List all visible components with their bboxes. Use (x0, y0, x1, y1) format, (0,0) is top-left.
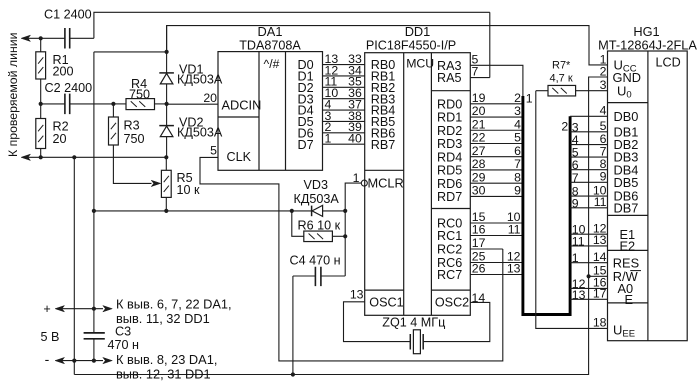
wire arrow to C1 (28, 37, 65, 39)
wire RD0 to bus (470, 103, 523, 105)
wire minus vertical (73, 157, 75, 374)
svg-text:RC7: RC7 (437, 268, 462, 282)
svg-text:11: 11 (572, 234, 585, 248)
svg-text:13: 13 (507, 262, 521, 276)
svg-text:18: 18 (593, 316, 607, 330)
op-amp/ADC DA1 TDA8708A outline (218, 52, 323, 171)
svg-text:7: 7 (472, 65, 479, 79)
svg-text:К выв. 8, 23 DA1,: К выв. 8, 23 DA1, (116, 352, 217, 367)
DA1 ADCIN/CLK divider (218, 116, 259, 118)
junction minus branch (72, 155, 76, 159)
junction R5 bottom (164, 209, 168, 213)
svg-text:КД503А: КД503А (177, 125, 223, 139)
wire bus to DB3 (570, 156, 607, 158)
capacitor C2 (65, 94, 70, 115)
svg-text:E: E (625, 292, 634, 307)
resistor R4 (126, 99, 155, 110)
svg-text:22: 22 (472, 131, 486, 145)
wire to VD3 cathode (292, 210, 312, 212)
MCLR inversion bubble (361, 180, 367, 186)
wire to C2 (41, 103, 65, 105)
wire RA3 to bus (470, 65, 523, 97)
svg-text:OSC2: OSC2 (435, 296, 469, 310)
wire D3 to RB3 (323, 98, 365, 100)
svg-text:5: 5 (210, 144, 217, 158)
wire C3 bottom lead (93, 339, 95, 361)
svg-text:RD3: RD3 (437, 137, 462, 151)
wire RC1 to bus (470, 235, 523, 237)
MCU DD1 PIC18F4550 outline (365, 53, 471, 316)
resistor R3 (109, 117, 119, 145)
svg-text:R3: R3 (124, 119, 140, 133)
svg-text:8: 8 (514, 170, 521, 184)
wire RA5 riser (489, 12, 491, 77)
svg-text:20: 20 (472, 104, 486, 118)
wire D2 to RB2 (323, 86, 365, 88)
wire RD6 to bus (470, 182, 523, 184)
svg-text:4: 4 (600, 104, 607, 118)
svg-text:13: 13 (572, 288, 586, 302)
wire bus to RES (570, 262, 607, 264)
svg-text:MT-12864J-2FLA: MT-12864J-2FLA (598, 38, 697, 53)
HG1 divider (647, 51, 649, 341)
svg-text:28: 28 (472, 157, 486, 171)
svg-text:7: 7 (514, 157, 521, 171)
junction C4 ground (291, 372, 295, 376)
wire to R1 (40, 38, 42, 52)
diode VD2 (159, 126, 174, 137)
svg-text:RD0: RD0 (437, 97, 462, 111)
junction R1 top (39, 36, 43, 40)
svg-text:19: 19 (472, 91, 486, 105)
wire D7 to RB7 (323, 143, 365, 145)
svg-text:CLK: CLK (227, 150, 252, 164)
svg-text:К выв. 6, 7, 22 DA1,: К выв. 6, 7, 22 DA1, (116, 296, 232, 311)
wire RA5 (470, 77, 490, 79)
capacitor C4 (315, 267, 321, 286)
svg-text:20: 20 (53, 132, 67, 146)
HG1 divider below DB7 (608, 214, 648, 216)
arrow to tested line (upper) (21, 35, 31, 41)
svg-text:КД503А: КД503А (294, 192, 340, 206)
HG1 divider below U0 (608, 102, 648, 104)
arrow +5V left (55, 306, 65, 312)
junction R3/R4 node (111, 102, 115, 106)
wire OSC2 to ZQ1 (423, 302, 490, 341)
junction MCLR node (343, 209, 347, 213)
resistor R7 (548, 85, 576, 96)
svg-text:13: 13 (593, 233, 607, 247)
svg-text:13: 13 (350, 288, 364, 302)
wire RD2 to bus (470, 129, 523, 131)
LCD module HG1 outline (608, 51, 688, 341)
wire RD5 to bus (470, 169, 523, 171)
svg-text:RD1: RD1 (437, 111, 462, 125)
svg-text:11: 11 (594, 195, 607, 209)
wire bus to DB2 (570, 144, 607, 146)
svg-text:29: 29 (472, 170, 486, 184)
wire +5V to VD1 top node (94, 51, 167, 53)
group bus (thick harness line) (523, 96, 570, 315)
wire RD4 to bus (470, 156, 523, 158)
trimmer R5 (161, 170, 171, 197)
svg-text:20: 20 (203, 91, 217, 105)
wire R3 to R5 wiper (113, 145, 151, 183)
R5 wiper arrow (151, 180, 161, 186)
svg-text:14: 14 (593, 250, 607, 264)
HG1 divider below E (608, 302, 648, 304)
junction +5V rail tap (92, 307, 96, 311)
wire VD1 anode to node (166, 84, 168, 104)
svg-text:DA1: DA1 (258, 24, 283, 39)
svg-text:750: 750 (124, 132, 145, 146)
svg-text:DD1: DD1 (405, 24, 431, 39)
svg-text:9: 9 (572, 196, 579, 210)
svg-text:PIC18F4550-I/P: PIC18F4550-I/P (366, 39, 456, 53)
resistor R6 (304, 231, 333, 242)
svg-text:40: 40 (348, 132, 362, 146)
capacitor C1 (65, 28, 70, 49)
svg-text:4: 4 (514, 117, 521, 131)
wire R7 left (536, 90, 548, 92)
wire bus to DB0 (570, 115, 607, 117)
svg-text:470 н: 470 н (108, 338, 140, 352)
svg-text:КД503А: КД503А (177, 73, 223, 87)
wire to R3 (112, 104, 114, 117)
wire D0 to RB0 (323, 64, 365, 66)
svg-text:2: 2 (514, 91, 521, 105)
wire node to VD2 cathode (166, 104, 168, 126)
svg-text:C2 2400: C2 2400 (45, 81, 93, 95)
junction VD3 anode node (290, 209, 294, 213)
svg-text:RC1: RC1 (437, 229, 462, 243)
wire R2 to lower arrow rail (40, 149, 42, 158)
svg-text:9: 9 (600, 170, 607, 184)
DD1 left divider below RB7 (365, 169, 404, 171)
junction R6 right (343, 234, 347, 238)
junction ADC input node (165, 102, 169, 106)
svg-text:9: 9 (514, 184, 521, 198)
wire node to MCLR pin (345, 183, 361, 211)
junction C2 node (39, 102, 43, 106)
wire R7 to U0 pin 3 (576, 90, 608, 92)
DD1 divider right (430, 53, 432, 316)
wire VD3 anode to MCLR node (323, 210, 346, 212)
wire GND rail (74, 77, 607, 375)
svg-text:D7: D7 (298, 138, 314, 152)
DA1 divider 2 (285, 52, 287, 171)
svg-text:7: 7 (572, 171, 579, 185)
svg-text:DB7: DB7 (614, 200, 639, 215)
svg-text:3: 3 (514, 104, 521, 118)
junction R5 top (164, 155, 168, 159)
wire to R4 (113, 103, 126, 105)
svg-text:OSC1: OSC1 (369, 296, 403, 310)
wire RC0 to bus (470, 222, 523, 224)
capacitor C3 (84, 333, 105, 339)
wire bus to DB4 (570, 169, 607, 171)
arrow -5V right (103, 357, 113, 363)
svg-text:R6 10 к: R6 10 к (298, 219, 341, 233)
junction C3 bottom (92, 359, 96, 363)
wire bus to E1 (570, 233, 607, 235)
resistor R2 (36, 119, 46, 149)
svg-text:TDA8708A: TDA8708A (239, 39, 301, 53)
wire R6 right (332, 235, 345, 237)
wire D4 to RB4 (323, 109, 365, 111)
svg-text:DB0: DB0 (614, 109, 639, 124)
wire +5V rail to HG1 Ucc pin 1 (167, 26, 608, 65)
DD1 right divider above OSC2 (431, 289, 470, 291)
wire lower arrow rail (28, 156, 166, 158)
svg-text:RD4: RD4 (437, 150, 462, 164)
wire bus to DB1 (570, 131, 607, 133)
junction VD1 top (165, 50, 169, 54)
svg-text:E2: E2 (620, 239, 636, 254)
arrow +5V right (103, 306, 113, 312)
wire R4 to VD node (155, 103, 167, 105)
wire C1 to corner (70, 37, 94, 39)
svg-text:30: 30 (472, 184, 486, 198)
svg-text:1: 1 (325, 132, 332, 146)
wire top rail to RA5 column (94, 12, 490, 38)
arrow -5V left (55, 357, 65, 363)
wire R/W pin 15 (589, 275, 608, 277)
svg-text:RD7: RD7 (437, 190, 462, 204)
svg-text:MCU: MCU (406, 57, 434, 71)
svg-text:1: 1 (572, 251, 579, 265)
wire C4 left (293, 275, 315, 277)
wire bus to E (570, 298, 607, 300)
DA1 divider 1 (258, 52, 260, 171)
wire CLK to RC2 (200, 157, 503, 361)
svg-text:LCD: LCD (656, 56, 681, 70)
wire to R6 left (292, 211, 304, 236)
svg-text:17: 17 (472, 236, 486, 250)
svg-text:5: 5 (514, 131, 521, 145)
svg-text:200: 200 (53, 65, 74, 79)
wire bus to DB7 (570, 207, 607, 209)
wire RD1 to bus (470, 116, 523, 118)
diode VD1 (159, 73, 174, 84)
svg-text:5 В: 5 В (41, 330, 60, 344)
wire minus row (62, 360, 103, 362)
svg-text:17: 17 (593, 287, 607, 301)
svg-text:C1 2400: C1 2400 (44, 8, 92, 22)
wire OSC1 to ZQ1 (344, 302, 411, 342)
wire +5V to VD3 node (94, 210, 292, 212)
svg-text:RA5: RA5 (437, 71, 462, 85)
wire C4 right (321, 275, 345, 277)
wire MCLR node down to C4 (344, 211, 346, 276)
svg-text:DB5: DB5 (614, 175, 639, 190)
DD1 divider left (403, 53, 405, 316)
svg-text:ZQ1 4 МГц: ZQ1 4 МГц (382, 316, 445, 330)
wire bus to E2 (570, 245, 607, 247)
DD1 right divider below RD7 (431, 208, 470, 210)
svg-text:R7*: R7* (552, 59, 571, 71)
svg-text:+: + (43, 302, 50, 316)
svg-text:VD3: VD3 (304, 178, 329, 192)
wire RD7 to bus (470, 195, 523, 197)
wire RC2 to CLK riser (470, 248, 503, 250)
junction R2 bottom (39, 155, 43, 159)
junction +5V tap (92, 209, 96, 213)
wire D5 to RB5 (323, 120, 365, 122)
svg-text:RC2: RC2 (437, 243, 462, 257)
junction minus branch bottom (72, 359, 76, 363)
diode VD3 (312, 205, 323, 216)
svg-text:21: 21 (472, 117, 486, 131)
wire to R5 top (165, 157, 167, 170)
wire C2 to R3 node (70, 103, 113, 105)
DD1 left divider above OSC1 (365, 289, 404, 291)
junction R/W to GND (587, 274, 591, 278)
svg-text:2: 2 (561, 119, 568, 133)
svg-text:RD2: RD2 (437, 124, 462, 138)
wire +5V row (62, 308, 103, 310)
wire R5 bottom (165, 197, 167, 211)
svg-text:ADCIN: ADCIN (222, 98, 262, 113)
svg-text:R/W: R/W (613, 269, 639, 284)
svg-text:MCLR: MCLR (368, 176, 404, 191)
crystal ZQ1 (410, 330, 423, 354)
arrow to tested line (lower) (21, 154, 31, 160)
svg-text:27: 27 (472, 144, 486, 158)
svg-text:C4 470 н: C4 470 н (290, 254, 341, 268)
wire VD2 anode to lower rail (166, 137, 168, 158)
svg-text:RD6: RD6 (437, 177, 462, 191)
wire D6 to RB6 (323, 132, 365, 134)
HG1 divider below E2 (608, 249, 648, 251)
svg-text:10 к: 10 к (177, 183, 201, 197)
wire C4 to ground rail (292, 276, 294, 375)
wire bus to DB6 (570, 195, 607, 197)
svg-text:C3: C3 (115, 324, 131, 338)
svg-text:RB7: RB7 (371, 138, 396, 152)
svg-text:16: 16 (472, 223, 486, 237)
svg-text:выв. 12, 31 DD1: выв. 12, 31 DD1 (116, 367, 211, 382)
wire C3 top lead (93, 309, 95, 333)
wire VD1 cathode lead (166, 26, 168, 73)
svg-text:^/#: ^/# (264, 57, 280, 71)
svg-text:15: 15 (593, 264, 607, 278)
svg-text:11: 11 (508, 223, 521, 237)
svg-text:1: 1 (353, 171, 360, 185)
svg-text:26: 26 (472, 262, 486, 276)
wire RD3 to bus (470, 142, 523, 144)
wire R1 to C2 node (40, 79, 42, 104)
svg-text:1: 1 (526, 92, 533, 106)
wire R7/UEE (536, 91, 608, 329)
svg-text:RD5: RD5 (437, 164, 462, 178)
wire RC7 to bus (470, 274, 523, 276)
wire bus to DB5 (570, 181, 607, 183)
wire +5V vertical (93, 52, 95, 309)
svg-text:К проверяемой линии: К проверяемой линии (6, 32, 20, 157)
svg-text:2: 2 (600, 65, 607, 79)
wire node to ADCIN pin 20 (167, 103, 218, 105)
DD1 right divider below RA5 (431, 90, 470, 92)
svg-text:4,7 к: 4,7 к (550, 73, 573, 85)
svg-text:6: 6 (514, 144, 521, 158)
wire D1 to RB1 (323, 75, 365, 77)
wire bus to A0 (570, 287, 607, 289)
wire to R2 (40, 104, 42, 119)
resistor R1 (36, 52, 46, 79)
svg-text:выв. 11, 32 DD1: выв. 11, 32 DD1 (116, 311, 210, 326)
svg-text:3: 3 (600, 78, 607, 92)
wire RC6 to bus (470, 262, 523, 264)
svg-text:-: - (45, 351, 50, 367)
